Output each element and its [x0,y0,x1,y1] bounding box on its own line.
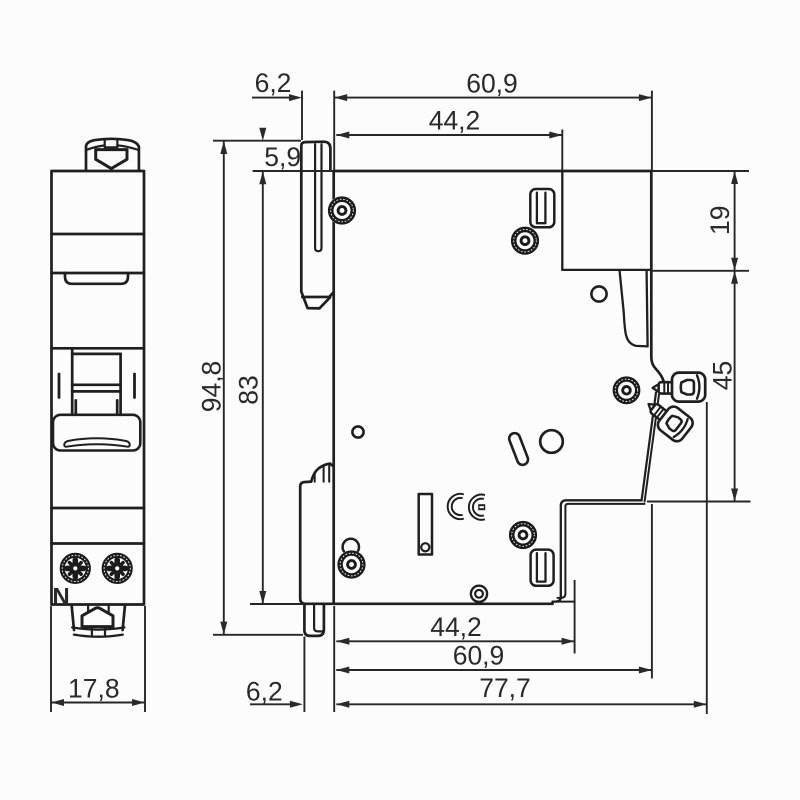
svg-text:N: N [52,583,69,610]
ext line 5,9 bottom / body top left [253,170,334,172]
arrow 44,2 bottom right [562,638,575,645]
arrow 6,2 top right-pointing [289,94,302,101]
bottom ext line 44,2 right [574,580,576,654]
svg-text:44,2: 44,2 [429,106,481,136]
svg-text:94,8: 94,8 [197,361,227,413]
arrow 45 down [731,489,738,502]
side body right edge upper [651,171,664,382]
small circle right [591,286,606,301]
arrow 60,9 bottom left [336,667,349,674]
ext line 44,2 top [561,130,563,171]
front panel line 1 [52,233,145,236]
terminal screw front left [59,552,91,584]
arrow 44,2 bottom left [336,638,349,645]
toggle handle side [620,271,648,346]
dim line 83 [262,171,264,604]
arrow 94,8 down [220,622,227,635]
svg-text:45: 45 [708,361,738,390]
ext line top body right [651,91,653,170]
rivet screw bottom-mid [509,521,538,550]
ext line 5,9 top [213,140,301,142]
bottom ext line 77,7 right [706,402,708,714]
ext line top body left [333,91,335,170]
arrow 17,8 right [132,699,145,706]
dim line 77,7 bottom [336,703,707,705]
arrow 17,8 left [51,699,64,706]
lower-right wall and foot [553,500,642,604]
CE marking [450,496,485,518]
terminal clamp screw upper [653,373,706,402]
DIN clip bottom tab [304,604,324,636]
ext line 17,8 left [50,606,52,712]
svg-text:17,8: 17,8 [68,674,120,704]
bottom terminal knob [72,605,125,637]
dimension texts [68,68,737,707]
vertical slot plate [419,494,432,555]
rivet screw top-mid [511,226,540,255]
side body left edge [332,171,335,604]
dim line 19 and 45 [734,171,736,502]
front recess slot [65,273,128,284]
arrow 6,2 bottom right-pointing [290,701,303,708]
front body outline [52,171,145,605]
front panel line 3 [52,347,145,350]
clamp cage bottom [531,550,554,586]
ext line 19 bottom [651,270,749,272]
arrow 45 up [731,271,738,284]
svg-text:83: 83 [234,375,264,404]
svg-text:5,9: 5,9 [264,142,301,172]
keyhole screw bottom-left [337,539,366,579]
side tick left [58,374,61,398]
front panel line 2 [52,272,145,275]
svg-text:6,2: 6,2 [255,68,292,98]
svg-text:6,2: 6,2 [246,677,283,707]
arrow 83 up [259,171,266,184]
arrowheads [51,94,738,708]
lever slot [64,438,129,446]
arrow 77,7 right [694,701,707,708]
top knob pentagon slot [96,150,127,169]
dim line 60,9 top [334,97,652,99]
ext line 17,8 right [144,606,146,712]
dim line 44,2 bottom [336,640,574,642]
side tick right [133,374,136,398]
svg-text:77,7: 77,7 [479,673,531,703]
svg-text:60,9: 60,9 [466,69,518,99]
dim line 94,8 [223,141,225,635]
arrow 60,9 bottom right [639,667,652,674]
svg-text:44,2: 44,2 [430,612,482,642]
svg-text:19: 19 [705,206,735,235]
dim line 44,2 top [336,134,562,136]
dim line 17,8 [51,702,145,704]
ext line 94,8 bottom [213,634,303,636]
arrow 83 down [259,591,266,604]
bottom ext line clip left [303,637,305,713]
front panel line 4 [52,507,145,510]
arrow 94,8 up [220,141,227,154]
bean capsule [508,432,530,467]
arrow 44,2 top right [549,132,562,139]
arrow 77,7 left [336,701,349,708]
arrow 5,9 down [259,128,266,141]
top terminal knob [86,139,139,170]
toggle lever [53,415,140,451]
clamp cage top [530,189,554,227]
DIN clip bottom spring [300,464,333,604]
internal step line [561,171,563,270]
side body top edge [334,170,652,173]
circle near bean [540,430,563,453]
arrow 19 up [731,171,738,184]
bottom ext line body left [333,606,335,712]
side body bottom edge [305,602,553,605]
switch frame [72,348,120,415]
ring circle bottom [471,586,487,602]
svg-text:60,9: 60,9 [453,641,505,671]
arrow 44,2 top left [336,132,349,139]
small circle mid-left [352,426,363,437]
front panel line 5 [52,542,145,545]
DIN clip top hook [301,142,333,309]
bottom ext line 60,9 right [651,504,653,679]
arrow 60,9 top left-pointing [334,94,347,101]
bottom knob pentagon [82,608,113,627]
dim line 6,2 bottom [250,703,291,705]
dim line 6,2 top [252,97,290,99]
rivet screw right [613,376,641,404]
ext line 83 bottom [250,603,304,605]
ext line top clip left [301,91,303,140]
clamp wall diagonal [642,393,656,501]
terminal screw front right [101,552,133,584]
terminal clamp screw lower [640,392,695,444]
ext line 45 bottom [647,501,751,503]
rivet screw top-left [328,196,357,225]
arrow 19 down [731,258,738,271]
arrow 60,9 top right-pointing [639,94,652,101]
ext line 19 top [651,170,749,172]
dim line 60,9 bottom [336,669,652,671]
